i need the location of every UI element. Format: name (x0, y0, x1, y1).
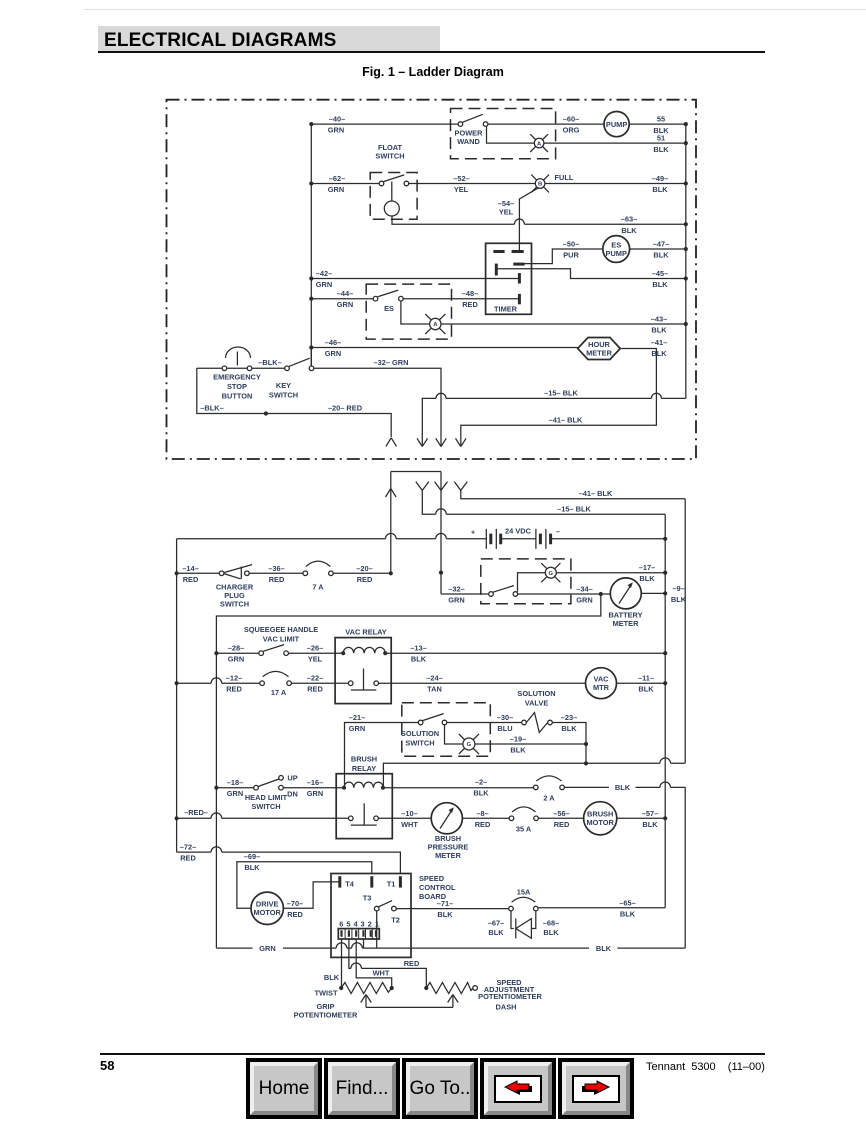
svg-text:BLK: BLK (411, 655, 427, 664)
svg-text:DN: DN (287, 790, 298, 799)
top ladder enclosure dash-dot border (167, 100, 697, 459)
svg-text:–49–: –49– (652, 174, 668, 183)
Y connector 32 (435, 482, 448, 491)
svg-text:STOP: STOP (227, 382, 247, 391)
svg-text:–10–: –10– (401, 809, 417, 818)
svg-text:METER: METER (613, 619, 640, 628)
svg-text:B: B (538, 182, 542, 188)
svg-text:GRN: GRN (337, 300, 353, 309)
svg-text:BLK: BLK (653, 251, 669, 260)
svg-text:BLK: BLK (621, 226, 637, 235)
wire 41 BLK hour meter down-left to connector arrow (461, 349, 657, 447)
wire GRN bottom row with hops (216, 943, 685, 948)
node rail/12 (175, 681, 179, 685)
svg-text:–69–: –69– (244, 852, 260, 861)
svg-text:–21–: –21– (349, 713, 365, 722)
wire to lamp G (518, 573, 546, 592)
wire wiper link (366, 1006, 453, 1008)
svg-text:UP: UP (287, 773, 297, 782)
wire 56 RED fuse to brush motor (538, 817, 583, 819)
svg-text:BLK: BLK (671, 595, 687, 604)
svg-text:–48–: –48– (462, 289, 478, 298)
wire battery minus to inner rail (551, 538, 666, 540)
svg-text:GRN: GRN (328, 126, 344, 135)
fuse 15A (509, 906, 514, 911)
svg-text:–72–: –72– (180, 843, 196, 852)
node bus/row40 (309, 122, 313, 126)
wire 30 BLU switch to solution valve (447, 722, 522, 724)
node rail/14 RED (175, 571, 179, 575)
svg-text:–8–: –8– (476, 809, 488, 818)
wire T2 to pin1 and GRN row (376, 911, 378, 948)
svg-text:A: A (433, 322, 438, 328)
arrowhead 15 down (417, 438, 428, 446)
wire 50 PUR timer to ES pump (525, 249, 603, 264)
svg-text:GRN: GRN (307, 789, 323, 798)
svg-text:–43–: –43– (651, 315, 667, 324)
svg-text:BLK: BLK (244, 863, 260, 872)
switch S-float (379, 181, 384, 186)
svg-text:2: 2 (368, 920, 372, 929)
svg-text:51: 51 (657, 134, 665, 143)
svg-text:BLK: BLK (639, 574, 655, 583)
wire 15 BLK row with hops and down arrow (422, 393, 686, 446)
wire 55 BLK pump to rail (629, 123, 686, 125)
wire 32 GRN riser from upper box (440, 472, 442, 595)
node subrail/28 (214, 651, 218, 655)
svg-text:–34–: –34– (576, 585, 592, 594)
svg-text:–BLK–: –BLK– (200, 404, 223, 413)
wire 54 YEL lamp B down to timer (519, 188, 538, 251)
wire pin3 to GRN row (363, 939, 365, 948)
power wand switch enclosure (451, 109, 556, 159)
svg-text:RED: RED (357, 575, 373, 584)
left supply bus (top box) (310, 124, 312, 366)
svg-text:SOLUTION: SOLUTION (517, 689, 555, 698)
svg-text:SWITCH: SWITCH (269, 391, 298, 400)
wire 8 RED meter to fuse (462, 817, 509, 819)
wire riser 20 RED to upper box (390, 472, 392, 574)
svg-text:GRN: GRN (228, 655, 244, 664)
svg-text:–11–: –11– (638, 674, 654, 683)
svg-text:RELAY: RELAY (352, 764, 376, 773)
svg-text:PUMP: PUMP (606, 120, 627, 129)
wire 48 RED ES switch to timer (403, 298, 519, 300)
wire BLK emergency to key switch (252, 367, 285, 369)
svg-text:BLK: BLK (324, 973, 340, 982)
svg-text:YEL: YEL (499, 208, 514, 217)
wire 2 BLK coil row to fuse (383, 787, 534, 789)
svg-text:RED: RED (554, 820, 570, 829)
wire battery row with hops (177, 533, 487, 538)
svg-text:–42–: –42– (316, 269, 332, 278)
svg-text:15A: 15A (517, 888, 531, 897)
indicator lamp A (power wand) (534, 138, 544, 148)
node 13/inner rail (663, 651, 667, 655)
svg-text:–RED–: –RED– (184, 808, 208, 817)
svg-text:BLK: BLK (651, 326, 667, 335)
svg-text:–57–: –57– (642, 809, 658, 818)
drive motor M-DRIVE (251, 892, 283, 924)
arrowhead up riser (386, 489, 397, 497)
svg-text:VAC LIMIT: VAC LIMIT (263, 634, 300, 643)
svg-text:ES: ES (384, 304, 394, 313)
ES switch enclosure (366, 284, 451, 339)
indicator lamp B FULL (535, 179, 545, 189)
svg-text:–: – (556, 527, 560, 536)
switch T2 (374, 906, 379, 911)
wire 11 BLK vac motor to inner rail (617, 682, 666, 684)
timer contact bar 2 (512, 250, 524, 253)
svg-text:G: G (467, 742, 472, 748)
svg-text:–60–: –60– (563, 115, 579, 124)
svg-text:RED: RED (287, 910, 303, 919)
wire 34 GRN switch to battery meter (518, 593, 611, 595)
indicator lamp G (battery) (545, 567, 556, 578)
dash pot wiper (448, 995, 459, 1008)
svg-text:17 A: 17 A (271, 688, 287, 697)
svg-text:MTR: MTR (593, 683, 610, 692)
svg-text:–23–: –23– (561, 713, 577, 722)
node riser/20RED (389, 571, 393, 575)
node 19/23 (584, 742, 588, 746)
float ball (391, 182, 393, 202)
svg-text:WAND: WAND (457, 137, 480, 146)
brush relay module (336, 774, 392, 839)
wire 46 GRN bus to hour meter (311, 347, 577, 349)
svg-text:–18–: –18– (227, 778, 243, 787)
svg-text:BLK: BLK (638, 685, 654, 694)
brush pressure meter (431, 803, 462, 834)
svg-text:GRN: GRN (349, 724, 365, 733)
svg-text:–24–: –24– (426, 674, 442, 683)
chevron 20 RED up connector (386, 438, 397, 447)
svg-text:–65–: –65– (619, 898, 635, 907)
svg-text:BLK: BLK (596, 944, 612, 953)
node 57/inner rail (663, 816, 667, 820)
svg-text:T3: T3 (363, 894, 372, 903)
wire 40 GRN bus to power wand (311, 123, 458, 125)
left supply rail (lower box) (176, 539, 178, 852)
svg-text:–67–: –67– (488, 918, 504, 927)
wire 32 GRN key switch down to connector arrow (314, 368, 441, 446)
Y connector 41 (454, 482, 467, 491)
wire 28 GRN subrail to vac limit switch (216, 652, 259, 654)
svg-text:GRN: GRN (576, 596, 592, 605)
svg-text:–26–: –26– (307, 644, 323, 653)
node rail/55 (684, 122, 688, 126)
wire 26 YEL switch to vac relay (288, 652, 343, 654)
svg-text:–52–: –52– (453, 174, 469, 183)
svg-text:PUR: PUR (563, 251, 579, 260)
wire 36 RED charger to fuse (249, 572, 303, 574)
wire 22 RED fuse to vac relay contact (291, 682, 348, 684)
svg-text:24 VDC: 24 VDC (505, 527, 532, 536)
wire 18 GRN subrail to head limit switch (216, 787, 253, 789)
svg-text:GRN: GRN (325, 349, 341, 358)
wire RED rail to contact with hop (177, 813, 349, 818)
node rail/43 (684, 322, 688, 326)
svg-text:–68–: –68– (543, 918, 559, 927)
vac relay coil (341, 651, 345, 655)
node bus/row62 (309, 181, 313, 185)
brush motor M-BRUSH (584, 802, 617, 835)
wire 10 WHT contact to brush pressure meter (378, 817, 431, 819)
svg-text:35 A: 35 A (516, 824, 532, 833)
node rail/51 (684, 141, 688, 145)
node rail/45 (684, 276, 688, 280)
svg-text:–17–: –17– (639, 563, 655, 572)
svg-text:GRN: GRN (259, 944, 275, 953)
timer terminal 42 (518, 273, 521, 283)
node rail/RED row (175, 816, 179, 820)
wire top link lower box (391, 471, 441, 473)
svg-text:SQUEEGEE HANDLE: SQUEEGEE HANDLE (244, 625, 318, 634)
node 9/inner rail (663, 591, 667, 595)
svg-text:EMERGENCY: EMERGENCY (213, 373, 261, 382)
indicator lamp A (ES) (430, 318, 441, 329)
speed control board module (331, 874, 411, 958)
wire 45 BLK timer to rail (496, 269, 686, 279)
svg-text:–46–: –46– (325, 338, 341, 347)
svg-text:SWITCH: SWITCH (375, 152, 404, 161)
svg-text:WHT: WHT (373, 968, 390, 977)
speed adjustment potentiometer (424, 986, 428, 990)
float switch enclosure (370, 173, 417, 220)
wire 65 BLK inner rail to fuse 15A (538, 907, 665, 909)
svg-text:GRN: GRN (227, 789, 243, 798)
terminal T3 (370, 876, 373, 887)
wire 15 BLK lower row with hop (422, 490, 665, 514)
outer return rail upper segment (684, 499, 686, 764)
svg-text:GRN: GRN (448, 596, 464, 605)
fuse 35A (509, 816, 514, 821)
svg-text:G: G (549, 571, 554, 577)
wire BLK 20 RED bottom row (197, 368, 391, 437)
svg-text:RED: RED (404, 959, 420, 968)
wire 43 BLK lamp to rail (441, 323, 686, 325)
inner return rail (664, 514, 666, 908)
svg-text:BLK: BLK (615, 783, 631, 792)
right return rail (top box) (685, 124, 687, 398)
svg-text:–56–: –56– (553, 809, 569, 818)
svg-text:SWITCH: SWITCH (220, 599, 249, 608)
svg-text:–22–: –22– (307, 674, 323, 683)
brush relay coil (342, 786, 346, 790)
switch S-battery (489, 592, 494, 597)
svg-text:–30–: –30– (497, 713, 513, 722)
wire BLK fuse to outer rail with hop (564, 782, 685, 787)
svg-text:BLK: BLK (653, 145, 669, 154)
key switch (285, 366, 290, 371)
svg-text:BLU: BLU (497, 724, 512, 733)
wire pin5 RED to dash pot (349, 939, 426, 988)
terminal T1 (399, 876, 402, 887)
outer return rail lower segment (684, 787, 686, 948)
wire 14 RED rail to charger switch (177, 572, 220, 574)
svg-text:METER: METER (586, 349, 613, 358)
svg-text:RED: RED (475, 820, 491, 829)
wire 71 BLK T2 to fuse 15A (396, 908, 509, 910)
wire 47 BLK ES pump to rail (630, 248, 686, 250)
pump motor M-PUMP (604, 112, 629, 137)
svg-text:–50–: –50– (563, 240, 579, 249)
svg-text:FULL: FULL (555, 173, 574, 182)
svg-text:SWITCH: SWITCH (251, 802, 280, 811)
node 34/squeegee feed (599, 592, 603, 596)
svg-text:5: 5 (346, 920, 350, 929)
node riser32 (439, 571, 443, 575)
timer contact bar 3 (513, 263, 524, 266)
svg-text:–41– BLK: –41– BLK (549, 415, 583, 424)
switch S-solution (418, 720, 423, 725)
node rail/63 (684, 222, 688, 226)
svg-text:T4: T4 (345, 880, 355, 889)
svg-text:GRN: GRN (328, 185, 344, 194)
fuse 2A (534, 785, 539, 790)
svg-text:6: 6 (339, 920, 343, 929)
wire pin6 BLK to twist pot (341, 939, 343, 988)
solution valve (522, 720, 527, 725)
svg-text:BLK: BLK (510, 746, 526, 755)
svg-text:–41–: –41– (651, 338, 667, 347)
wire 17 BLK lamp G to inner rail (556, 572, 665, 574)
wire 52 YEL float switch to lamp B (409, 183, 536, 185)
wire emergency stop feed (197, 367, 222, 369)
svg-text:7 A: 7 A (312, 582, 324, 591)
timer contact bar 1 (493, 250, 504, 253)
node rail/49 (684, 181, 688, 185)
wire 63 BLK float box to rail with hop (392, 216, 686, 224)
vac motor M-VAC (586, 668, 617, 699)
wire 44 GRN bus to ES switch (311, 298, 373, 300)
wire pin4 WHT to twist pot (356, 939, 392, 988)
Y connector 15 (416, 482, 429, 491)
wire 49 BLK lamp B to rail (545, 183, 686, 185)
vac relay module (335, 638, 391, 704)
svg-text:RED: RED (462, 300, 478, 309)
terminal T4 (338, 876, 341, 887)
svg-text:–14–: –14– (182, 564, 198, 573)
svg-text:–40–: –40– (329, 115, 345, 124)
timer contact bar 4 (495, 264, 498, 276)
svg-text:3: 3 (361, 920, 365, 929)
svg-text:RED: RED (183, 575, 199, 584)
svg-text:METER: METER (435, 851, 462, 860)
svg-text:BLK: BLK (652, 280, 668, 289)
node 20 RED junction (264, 411, 268, 415)
diode bypass (511, 911, 536, 929)
head limit switch (254, 785, 259, 790)
svg-text:BLK: BLK (543, 928, 559, 937)
battery meter (610, 578, 641, 609)
wire 60 ORG switch to pump (488, 123, 604, 125)
svg-text:PUMP: PUMP (606, 249, 627, 258)
svg-text:MOTOR: MOTOR (254, 908, 282, 917)
svg-text:–32–: –32– (448, 585, 464, 594)
svg-text:GRN: GRN (316, 280, 332, 289)
svg-text:TIMER: TIMER (494, 304, 518, 313)
svg-text:ORG: ORG (563, 126, 580, 135)
svg-text:T1: T1 (387, 880, 396, 889)
charger plug switch (219, 571, 224, 576)
solution switch enclosure (402, 703, 491, 756)
wire 19 BLK lamp to node (475, 743, 586, 745)
svg-text:–71–: –71– (437, 899, 453, 908)
wire 72 RED rail to T1 with hop (177, 847, 401, 874)
wire to lamp A (487, 126, 535, 143)
svg-text:4: 4 (353, 920, 358, 929)
svg-text:2 A: 2 A (543, 794, 555, 803)
fuse 7A (303, 571, 308, 576)
svg-text:POTENTIOMETER: POTENTIOMETER (294, 1010, 358, 1019)
svg-text:TWIST: TWIST (315, 988, 338, 997)
svg-text:–45–: –45– (652, 269, 668, 278)
svg-text:YEL: YEL (454, 185, 469, 194)
svg-text:BLK: BLK (488, 928, 504, 937)
svg-text:+: + (471, 528, 476, 537)
wire 57 BLK motor to inner rail (617, 817, 665, 819)
svg-text:1: 1 (375, 920, 379, 929)
svg-text:BLK: BLK (620, 909, 636, 918)
svg-text:KEY: KEY (276, 381, 291, 390)
fuse 17A (260, 681, 265, 686)
svg-text:–28–: –28– (228, 644, 244, 653)
wire 21 GRN riser to solution switch (345, 723, 419, 788)
svg-text:–47–: –47– (653, 240, 669, 249)
svg-text:RED: RED (307, 685, 323, 694)
svg-text:T2: T2 (391, 916, 400, 925)
wire 13 BLK coil to inner rail (385, 652, 665, 654)
svg-text:–16–: –16– (307, 778, 323, 787)
wire 42 GRN bus to timer (311, 278, 519, 280)
svg-text:–20–: –20– (356, 564, 372, 573)
svg-text:VALVE: VALVE (525, 699, 549, 708)
svg-text:–15– BLK: –15– BLK (544, 388, 578, 397)
svg-text:–20– RED: –20– RED (328, 404, 363, 413)
svg-text:–2–: –2– (475, 778, 487, 787)
wire relay feed outer rail to brush relay coil with hop (383, 758, 685, 788)
wire 51 BLK lamp A to rail (544, 142, 686, 144)
switch squeegee handle vac limit (259, 651, 264, 656)
svg-text:BLK: BLK (561, 724, 577, 733)
wire 32 GRN riser to battery switch (441, 593, 489, 595)
svg-text:CONTROL: CONTROL (419, 883, 456, 892)
svg-text:BLK: BLK (642, 820, 658, 829)
svg-text:–36–: –36– (268, 564, 284, 573)
node rail/47 (684, 247, 688, 251)
svg-text:BRUSH: BRUSH (351, 755, 377, 764)
svg-text:BLK: BLK (652, 185, 668, 194)
node 17/inner rail (663, 571, 667, 575)
svg-text:–62–: –62– (329, 174, 345, 183)
wire 12 RED rail to fuse with hop (177, 678, 260, 683)
svg-text:SOLUTION: SOLUTION (401, 729, 439, 738)
svg-text:–70–: –70– (287, 899, 303, 908)
timer module TIMER (486, 243, 532, 314)
svg-text:RED: RED (226, 685, 242, 694)
svg-text:BLK: BLK (473, 789, 489, 798)
svg-text:SPEED: SPEED (419, 874, 445, 883)
hour meter (578, 338, 621, 360)
timer terminal 48 (518, 294, 521, 304)
svg-text:BLK: BLK (651, 349, 667, 358)
wire bus down to key switch (310, 348, 312, 366)
arrowhead 32 down (436, 438, 447, 446)
node subrail/18 (214, 786, 218, 790)
svg-text:DASH: DASH (496, 1002, 517, 1011)
svg-text:–19–: –19– (510, 735, 526, 744)
